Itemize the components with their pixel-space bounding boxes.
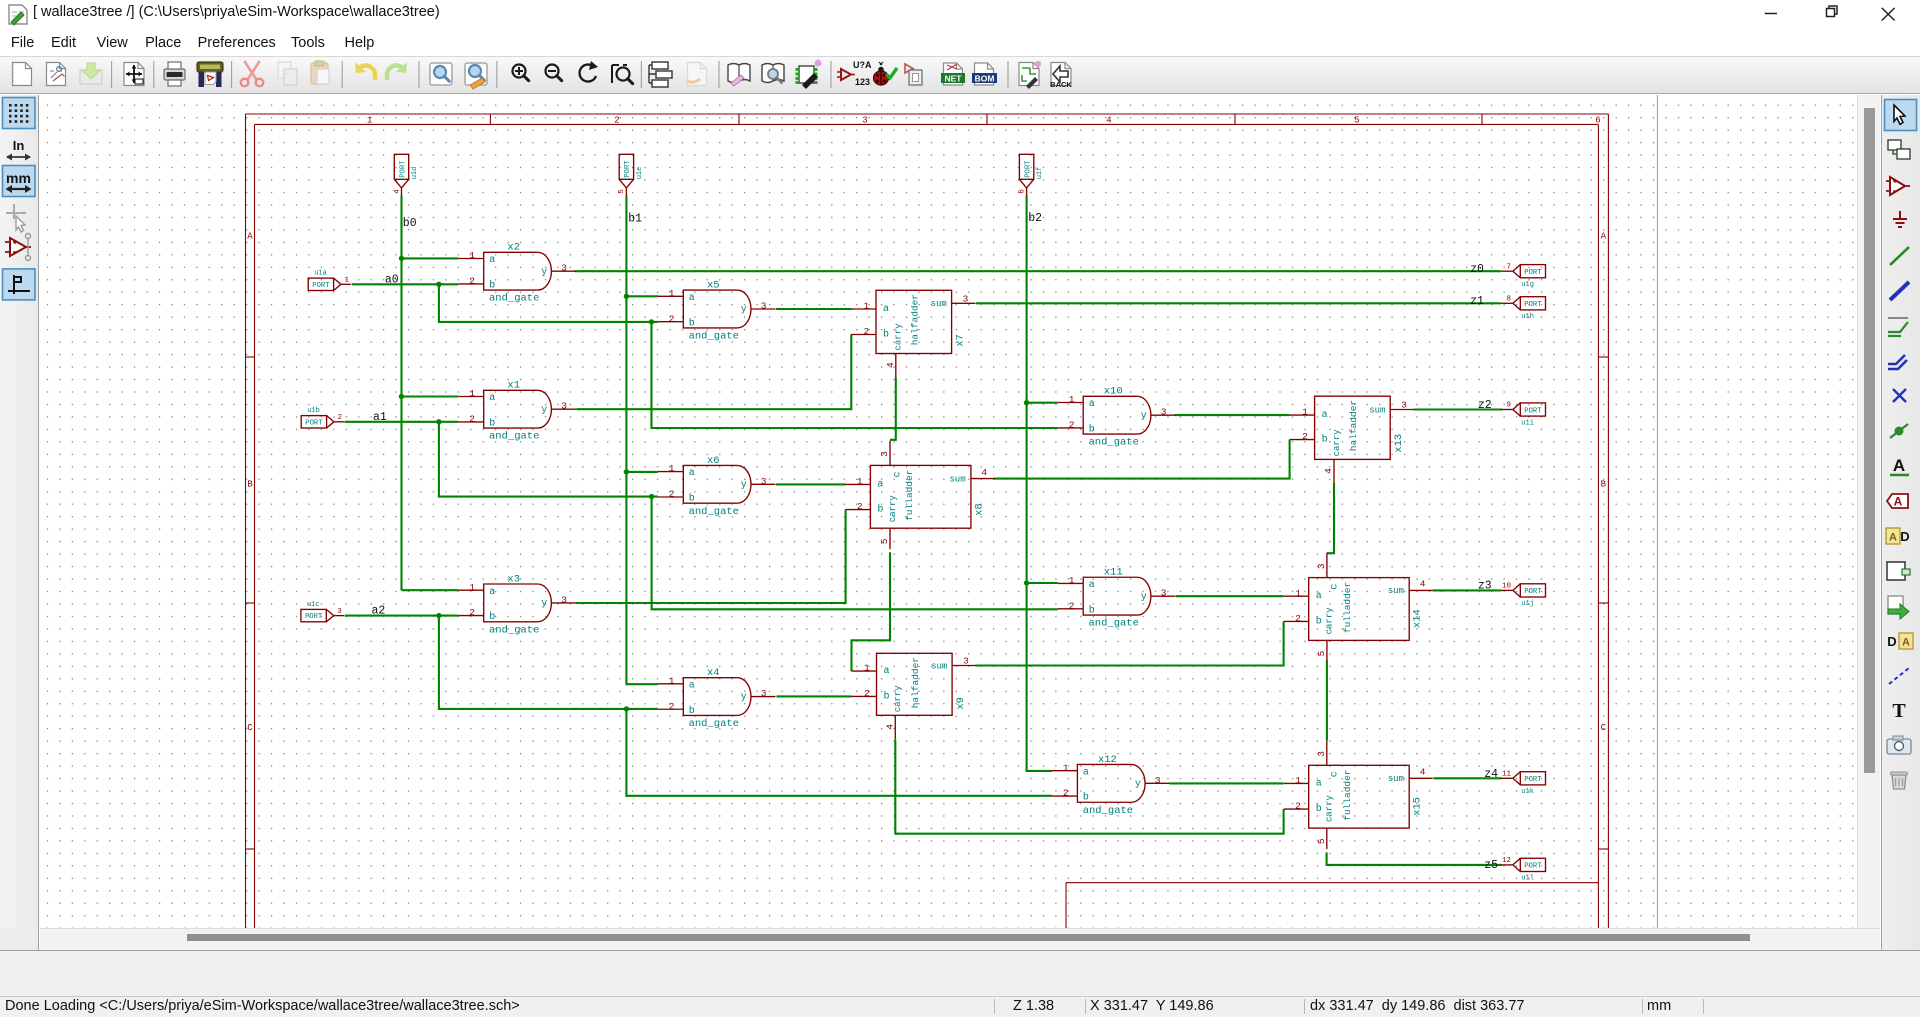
svg-text:2: 2 (469, 607, 475, 618)
svg-text:C: C (247, 723, 253, 733)
svg-text:x5: x5 (707, 280, 720, 292)
svg-text:3: 3 (1155, 775, 1161, 786)
svg-text:3: 3 (963, 656, 969, 667)
svg-text:sum: sum (949, 474, 965, 484)
svg-text:1: 1 (469, 582, 475, 593)
svg-text:u1b: u1b (307, 407, 320, 415)
svg-text:b: b (1322, 434, 1328, 446)
svg-text:carry: carry (894, 323, 904, 351)
svg-text:A: A (1601, 232, 1607, 242)
svg-text:3: 3 (561, 401, 567, 412)
svg-text:z2: z2 (1478, 399, 1492, 412)
svg-text:x12: x12 (1098, 754, 1117, 766)
svg-text:fulladder: fulladder (1342, 769, 1353, 820)
svg-text:4: 4 (393, 189, 401, 194)
svg-text:1: 1 (1295, 588, 1301, 599)
svg-text:carry: carry (888, 495, 898, 523)
svg-text:carry: carry (1325, 794, 1335, 822)
svg-text:3: 3 (1401, 400, 1407, 411)
svg-text:2: 2 (1295, 613, 1301, 624)
svg-text:and_gate: and_gate (689, 331, 739, 343)
svg-text:7: 7 (1506, 263, 1511, 271)
svg-text:1: 1 (1302, 407, 1308, 418)
svg-text:and_gate: and_gate (1083, 805, 1133, 817)
svg-text:carry: carry (1325, 607, 1335, 635)
svg-text:z3: z3 (1478, 579, 1492, 592)
svg-text:y: y (1135, 779, 1141, 790)
svg-text:halfadder: halfadder (910, 657, 921, 708)
svg-text:u1i: u1i (1521, 419, 1534, 427)
svg-text:sum: sum (1388, 586, 1404, 596)
svg-text:b: b (689, 705, 695, 717)
svg-text:3: 3 (761, 476, 767, 487)
svg-text:x1: x1 (507, 380, 520, 392)
svg-text:a: a (877, 479, 883, 490)
svg-text:x14: x14 (1412, 609, 1424, 628)
svg-text:2: 2 (864, 326, 870, 337)
svg-text:carry: carry (1332, 429, 1342, 457)
svg-text:b: b (1316, 803, 1322, 815)
svg-text:sum: sum (1369, 405, 1385, 415)
svg-text:b: b (689, 493, 695, 505)
svg-text:b: b (689, 317, 695, 329)
svg-text:a2: a2 (372, 605, 386, 618)
svg-text:3: 3 (1316, 563, 1327, 569)
svg-text:sum: sum (931, 299, 947, 309)
svg-text:2: 2 (857, 501, 863, 512)
svg-text:2: 2 (1069, 420, 1075, 431)
svg-text:2: 2 (1069, 600, 1075, 611)
svg-text:fulladder: fulladder (1342, 582, 1353, 633)
svg-text:c: c (1329, 584, 1340, 590)
svg-text:3: 3 (1161, 588, 1167, 599)
svg-text:5: 5 (1316, 838, 1327, 844)
svg-text:b2: b2 (1028, 212, 1042, 225)
svg-text:and_gate: and_gate (689, 506, 739, 518)
svg-text:x11: x11 (1104, 567, 1123, 579)
svg-text:b0: b0 (403, 217, 417, 230)
svg-text:4: 4 (1323, 468, 1334, 474)
svg-text:u1f: u1f (1036, 167, 1044, 180)
svg-text:b: b (877, 504, 883, 516)
svg-text:z0: z0 (1470, 263, 1484, 276)
svg-text:4: 4 (1106, 116, 1111, 126)
svg-text:PORT: PORT (399, 160, 407, 178)
svg-text:6: 6 (1595, 116, 1600, 126)
svg-text:9: 9 (1506, 402, 1511, 410)
svg-text:2: 2 (864, 688, 870, 699)
svg-text:BACK: BACK (1050, 80, 1072, 89)
svg-text:123: 123 (855, 77, 870, 87)
svg-text:2: 2 (1302, 431, 1308, 442)
svg-text:u1d: u1d (411, 167, 419, 180)
svg-text:u1k: u1k (1521, 788, 1534, 796)
svg-text:5: 5 (1316, 650, 1327, 656)
svg-text:a: a (884, 666, 890, 677)
svg-text:PORT: PORT (305, 419, 323, 427)
svg-text:1: 1 (669, 675, 675, 686)
svg-text:C: C (1601, 723, 1607, 733)
svg-text:sum: sum (931, 661, 947, 671)
svg-text:x9: x9 (955, 697, 967, 710)
svg-text:y: y (741, 480, 747, 491)
svg-text:a: a (1089, 580, 1095, 591)
svg-text:2: 2 (469, 276, 475, 287)
svg-text:u1a: u1a (314, 270, 327, 278)
svg-text:and_gate: and_gate (1088, 618, 1138, 630)
svg-text:a: a (1322, 410, 1328, 421)
svg-text:1: 1 (669, 463, 675, 474)
svg-text:b: b (489, 280, 495, 292)
svg-text:4: 4 (1420, 767, 1426, 778)
svg-text:5: 5 (879, 538, 890, 544)
svg-text:x8: x8 (973, 503, 985, 516)
svg-text:4: 4 (885, 362, 896, 368)
svg-text:2: 2 (1295, 801, 1301, 812)
svg-text:1: 1 (469, 388, 475, 399)
svg-text:3: 3 (761, 688, 767, 699)
svg-text:z1: z1 (1470, 295, 1484, 308)
svg-text:y: y (541, 599, 547, 610)
svg-text:5: 5 (1354, 116, 1359, 126)
svg-text:1: 1 (1069, 575, 1075, 586)
svg-text:a: a (489, 393, 495, 404)
svg-text:B: B (247, 480, 253, 490)
svg-text:a: a (1083, 767, 1089, 778)
svg-text:and_gate: and_gate (489, 624, 539, 636)
svg-text:PORT: PORT (1524, 269, 1542, 277)
svg-text:PORT: PORT (1524, 407, 1542, 415)
svg-text:3: 3 (1161, 407, 1167, 418)
svg-text:B: B (1601, 480, 1607, 490)
svg-text:u1c: u1c (307, 601, 320, 609)
svg-text:4: 4 (1420, 579, 1426, 590)
svg-text:x3: x3 (507, 573, 520, 585)
svg-text:halfadder: halfadder (1348, 400, 1359, 451)
svg-text:b: b (883, 329, 889, 341)
svg-text:1: 1 (345, 277, 350, 285)
svg-text:4: 4 (981, 467, 987, 478)
svg-text:2: 2 (338, 414, 343, 422)
svg-text:b: b (1316, 615, 1322, 627)
svg-text:a: a (1089, 399, 1095, 410)
svg-text:PORT: PORT (305, 613, 323, 621)
svg-text:2: 2 (669, 489, 675, 500)
svg-text:PORT: PORT (1524, 301, 1542, 309)
svg-text:6: 6 (1018, 189, 1026, 194)
svg-text:8: 8 (1506, 296, 1511, 304)
svg-text:x13: x13 (1393, 434, 1405, 453)
svg-text:11: 11 (1502, 771, 1512, 779)
svg-text:a: a (1316, 778, 1322, 789)
svg-text:3: 3 (1316, 751, 1327, 757)
svg-text:u1g: u1g (1521, 281, 1534, 289)
svg-text:U?A: U?A (853, 60, 872, 70)
svg-text:A: A (247, 232, 253, 242)
svg-text:x2: x2 (507, 242, 520, 254)
svg-text:z4: z4 (1484, 768, 1498, 781)
svg-text:1: 1 (1295, 775, 1301, 786)
svg-text:y: y (541, 405, 547, 416)
svg-text:x4: x4 (707, 667, 720, 679)
svg-text:a: a (689, 680, 695, 691)
svg-text:3: 3 (337, 608, 342, 616)
svg-text:1: 1 (367, 116, 372, 126)
svg-text:PORT: PORT (312, 282, 330, 290)
svg-text:carry: carry (893, 685, 903, 713)
svg-text:b: b (489, 418, 495, 430)
svg-text:1: 1 (469, 250, 475, 261)
svg-text:b: b (1089, 604, 1095, 616)
svg-text:10: 10 (1502, 583, 1512, 591)
svg-text:a: a (689, 468, 695, 479)
svg-text:3: 3 (561, 594, 567, 605)
svg-text:sum: sum (1388, 774, 1404, 784)
svg-text:y: y (541, 267, 547, 278)
svg-text:PORT: PORT (1524, 863, 1542, 871)
svg-text:4: 4 (884, 724, 895, 730)
svg-text:a: a (689, 293, 695, 304)
svg-text:1: 1 (1063, 762, 1069, 773)
svg-text:fulladder: fulladder (904, 470, 915, 521)
svg-text:b: b (489, 611, 495, 623)
svg-text:1: 1 (864, 663, 870, 674)
svg-text:u1e: u1e (636, 167, 644, 180)
svg-text:and_gate: and_gate (689, 718, 739, 730)
svg-text:c: c (893, 471, 904, 477)
svg-text:1: 1 (864, 301, 870, 312)
svg-text:u1l: u1l (1521, 875, 1534, 883)
svg-text:a: a (883, 304, 889, 315)
svg-text:b1: b1 (628, 212, 642, 225)
svg-text:3: 3 (761, 301, 767, 312)
svg-text:and_gate: and_gate (489, 293, 539, 305)
svg-text:2: 2 (669, 313, 675, 324)
svg-text:b: b (1083, 792, 1089, 804)
svg-text:PORT: PORT (624, 160, 632, 178)
svg-text:u1j: u1j (1521, 600, 1534, 608)
svg-text:u1h: u1h (1521, 313, 1534, 321)
svg-text:a0: a0 (385, 274, 399, 287)
svg-text:PORT: PORT (1524, 588, 1542, 596)
svg-text:1: 1 (1069, 394, 1075, 405)
svg-text:a: a (489, 587, 495, 598)
svg-text:3: 3 (561, 263, 567, 274)
svg-text:a: a (1316, 591, 1322, 602)
svg-text:2: 2 (469, 414, 475, 425)
svg-text:z5: z5 (1484, 859, 1498, 872)
svg-text:a: a (489, 255, 495, 266)
svg-text:y: y (1141, 411, 1147, 422)
svg-text:halfadder: halfadder (910, 294, 921, 345)
svg-text:b: b (1089, 424, 1095, 436)
svg-text:3: 3 (862, 116, 867, 126)
svg-text:and_gate: and_gate (1088, 437, 1138, 449)
svg-text:and_gate: and_gate (489, 431, 539, 443)
svg-text:5: 5 (618, 189, 626, 194)
svg-text:x6: x6 (707, 455, 720, 467)
svg-text:2: 2 (614, 116, 619, 126)
svg-text:2: 2 (1063, 788, 1069, 799)
svg-text:c: c (1329, 771, 1340, 777)
svg-text:x7: x7 (955, 334, 967, 347)
svg-text:1: 1 (857, 476, 863, 487)
svg-text:3: 3 (963, 294, 969, 305)
svg-text:PORT: PORT (1524, 776, 1542, 784)
svg-text:b: b (884, 690, 890, 702)
svg-text:y: y (741, 305, 747, 316)
svg-text:2: 2 (669, 701, 675, 712)
svg-text:12: 12 (1502, 857, 1511, 865)
svg-text:3: 3 (879, 451, 890, 457)
svg-text:1: 1 (669, 288, 675, 299)
svg-text:y: y (1141, 592, 1147, 603)
svg-text:NET: NET (945, 74, 963, 84)
svg-text:y: y (741, 692, 747, 703)
svg-text:a1: a1 (373, 411, 387, 424)
svg-text:x10: x10 (1104, 386, 1123, 398)
svg-text:x15: x15 (1412, 797, 1424, 816)
svg-text:PORT: PORT (1024, 160, 1032, 178)
svg-text:BOM: BOM (975, 74, 995, 84)
